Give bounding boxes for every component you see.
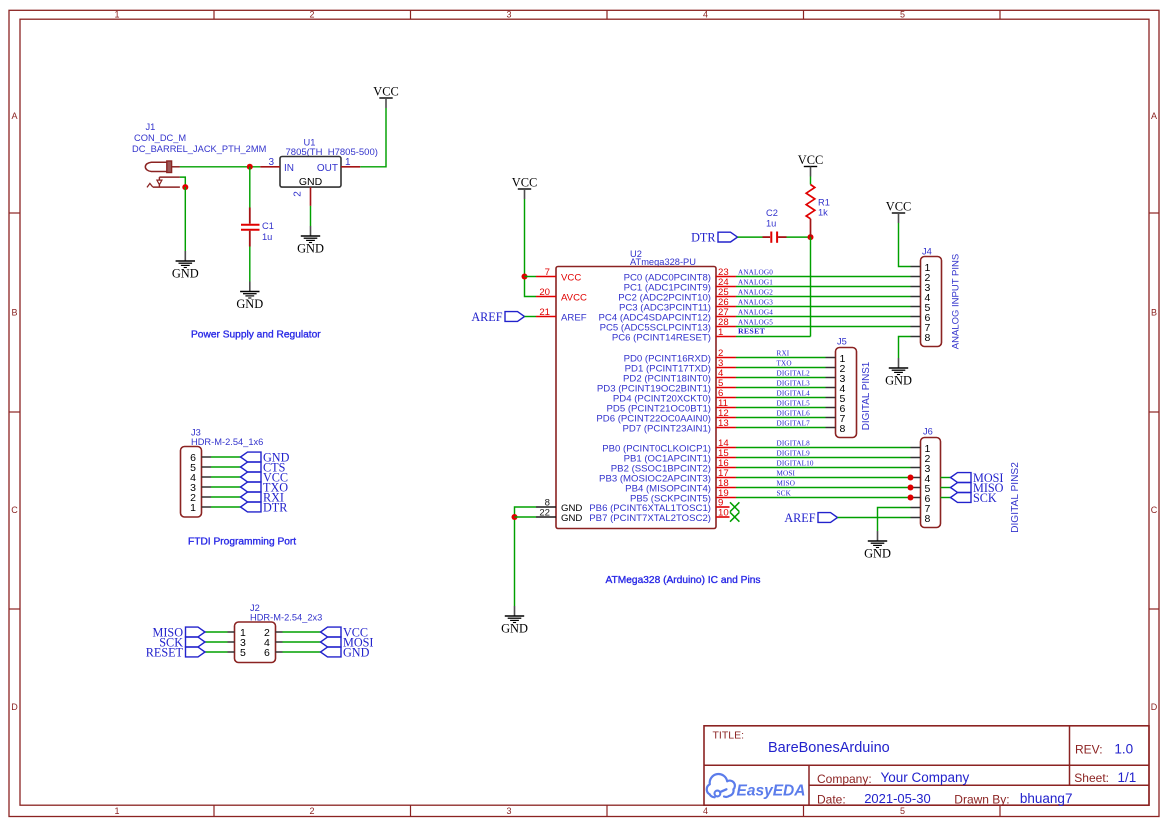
ground — [864, 531, 891, 561]
svg-text:4: 4 — [703, 9, 708, 19]
svg-text:1u: 1u — [766, 219, 776, 229]
wire — [736, 497, 911, 499]
ground — [297, 226, 324, 256]
junction — [182, 184, 188, 190]
svg-text:ANALOG1: ANALOG1 — [738, 279, 773, 287]
svg-text:10: 10 — [718, 508, 729, 519]
connector J6 — [921, 427, 941, 528]
svg-text:PC6 (PCINT14RESET): PC6 (PCINT14RESET) — [612, 332, 711, 343]
svg-text:D: D — [1151, 702, 1158, 712]
svg-text:AVCC: AVCC — [561, 292, 587, 303]
svg-text:Date:: Date: — [817, 793, 846, 807]
svg-text:GND: GND — [297, 242, 324, 256]
IC U2 ATmega328-PU — [556, 249, 716, 529]
svg-text:PB7 (PCINT7XTAL2TOSC2): PB7 (PCINT7XTAL2TOSC2) — [589, 513, 711, 524]
connector J2 — [235, 603, 323, 663]
svg-text:ANALOG3: ANALOG3 — [738, 299, 773, 307]
wire — [736, 286, 911, 288]
svg-text:D: D — [11, 702, 18, 712]
svg-text:Power Supply and Regulator: Power Supply and Regulator — [191, 330, 321, 341]
wire — [525, 199, 537, 297]
pin 4 of J4 — [911, 292, 931, 304]
wire — [249, 247, 251, 282]
svg-text:GND: GND — [236, 297, 263, 311]
svg-text:2: 2 — [309, 806, 314, 816]
pin 4 of J6 — [911, 473, 931, 485]
svg-text:DIGITAL PINS2: DIGITAL PINS2 — [1010, 462, 1021, 533]
net flag GND — [241, 450, 290, 464]
connector J5 — [836, 337, 857, 438]
wire — [736, 447, 911, 449]
svg-text:BareBonesArduino: BareBonesArduino — [768, 740, 890, 756]
wire — [736, 397, 826, 399]
pin 2 of J4 — [911, 272, 931, 284]
wire — [205, 641, 228, 643]
svg-text:1: 1 — [345, 157, 351, 168]
wire — [736, 316, 911, 318]
svg-text:1: 1 — [718, 327, 723, 338]
svg-text:21: 21 — [539, 307, 550, 318]
svg-text:2: 2 — [293, 191, 304, 197]
resistor R1 — [806, 185, 830, 238]
pin 28 of U2 (PC5) — [600, 317, 736, 333]
title block — [704, 726, 1149, 807]
svg-text:HDR-M-2.54_1x6: HDR-M-2.54_1x6 — [191, 437, 263, 447]
wire — [211, 456, 241, 458]
pin 25 of U2 (PC2) — [618, 287, 736, 303]
svg-text:DIGITAL4: DIGITAL4 — [777, 390, 811, 398]
svg-text:IN: IN — [284, 163, 294, 174]
pin 6 of U2 (PD4) — [613, 388, 736, 404]
svg-text:REV:: REV: — [1075, 742, 1103, 756]
wire — [838, 517, 911, 519]
svg-text:J6: J6 — [923, 427, 933, 437]
junction — [908, 485, 914, 491]
pin 2 of J3 — [190, 492, 211, 504]
pin 5 of J4 — [911, 302, 931, 314]
svg-text:VCC: VCC — [373, 85, 398, 99]
wire — [525, 276, 537, 278]
junction — [808, 234, 814, 240]
pin 7 of J5 — [826, 413, 846, 425]
net flag RXI — [241, 490, 285, 504]
svg-text:AREF: AREF — [784, 511, 815, 525]
pin 13 of U2 (PD7) — [623, 418, 737, 434]
wire — [283, 631, 321, 633]
svg-text:5: 5 — [240, 647, 246, 659]
svg-text:13: 13 — [718, 418, 729, 429]
wire — [736, 427, 826, 429]
wire — [736, 477, 911, 479]
power flag VCC — [798, 153, 823, 177]
pin 5 of J2 — [228, 647, 247, 659]
pin 5 of U2 (PD3) — [597, 378, 736, 394]
svg-text:U1: U1 — [304, 138, 316, 148]
svg-text:VCC: VCC — [886, 200, 911, 214]
junction — [512, 514, 518, 520]
junction — [247, 164, 253, 170]
svg-text:1k: 1k — [818, 207, 828, 217]
svg-text:1/1: 1/1 — [1118, 770, 1137, 785]
svg-text:J3: J3 — [191, 428, 201, 438]
svg-text:HDR-M-2.54_2x3: HDR-M-2.54_2x3 — [250, 613, 322, 623]
wire — [525, 316, 537, 318]
ground — [501, 606, 528, 636]
svg-text:SCK: SCK — [777, 490, 792, 498]
svg-text:VCC: VCC — [512, 176, 537, 190]
wire — [736, 326, 911, 328]
svg-text:2021-05-30: 2021-05-30 — [864, 791, 931, 806]
pin 8 of J5 — [826, 423, 846, 435]
pin 3 of J5 — [826, 373, 846, 385]
pin 12 of U2 (PD6) — [596, 408, 736, 424]
svg-text:TXO: TXO — [777, 360, 792, 368]
wire — [184, 187, 186, 251]
wire — [941, 477, 951, 479]
svg-text:4: 4 — [703, 806, 708, 816]
net flag GND — [321, 645, 370, 659]
wire — [211, 506, 241, 508]
svg-text:22: 22 — [539, 508, 550, 519]
svg-text:AREF: AREF — [561, 312, 587, 323]
pin 2 of J6 — [911, 453, 931, 465]
svg-text:1: 1 — [190, 502, 196, 514]
wire — [211, 466, 241, 468]
pin 18 of U2 (PB4) — [625, 478, 736, 494]
svg-text:VCC: VCC — [798, 153, 823, 167]
svg-text:7: 7 — [545, 267, 550, 278]
wire — [211, 496, 241, 498]
power flag VCC — [886, 200, 911, 224]
pin 6 of J4 — [911, 312, 931, 324]
svg-text:DTR: DTR — [691, 231, 716, 245]
pin 10 of U2 (PB7) — [589, 508, 729, 524]
svg-text:Company:: Company: — [817, 772, 872, 786]
svg-text:ANALOG5: ANALOG5 — [738, 319, 773, 327]
wire — [787, 236, 811, 238]
svg-text:3: 3 — [506, 9, 511, 19]
wire — [736, 306, 911, 308]
svg-text:EasyEDA: EasyEDA — [737, 782, 806, 799]
net flag AREF — [471, 310, 524, 324]
svg-text:1: 1 — [114, 806, 119, 816]
wire — [736, 457, 911, 459]
svg-text:PD7 (PCINT23AIN1): PD7 (PCINT23AIN1) — [623, 423, 712, 434]
wire — [736, 296, 911, 298]
pin 7 of J4 — [911, 322, 931, 334]
pin 11 of U2 (PD5) — [607, 398, 737, 414]
pin 4 of U2 (PD2) — [623, 368, 736, 384]
net flag VCC — [241, 470, 289, 484]
svg-text:GND: GND — [885, 374, 912, 388]
pin 4 of J5 — [826, 383, 846, 395]
wire — [180, 177, 185, 187]
pin 3 of J2 — [228, 637, 247, 649]
svg-text:RXI: RXI — [777, 350, 790, 358]
wire — [736, 357, 826, 359]
svg-text:RESET: RESET — [738, 327, 766, 336]
pin 3 of U1 — [260, 157, 280, 168]
wire — [736, 276, 911, 278]
wire — [211, 486, 241, 488]
ground — [885, 358, 912, 388]
pin 1 of J5 — [826, 353, 846, 365]
wire — [899, 337, 911, 359]
svg-text:bhuang7: bhuang7 — [1020, 791, 1073, 806]
svg-text:Sheet:: Sheet: — [1074, 771, 1109, 785]
pin 2 of J5 — [826, 363, 846, 375]
wire — [283, 641, 321, 643]
wire — [211, 476, 241, 478]
net flag AREF — [784, 511, 837, 525]
pin 8 of U2 (GND) — [536, 498, 582, 514]
svg-text:Your Company: Your Company — [881, 770, 970, 785]
pin 8 of J6 — [911, 513, 931, 525]
capacitor C1 — [241, 208, 274, 247]
svg-text:GND: GND — [299, 176, 323, 188]
svg-text:5: 5 — [900, 9, 905, 19]
pin 24 of U2 (PC1) — [624, 277, 736, 293]
pin 5 of J6 — [911, 483, 931, 495]
wire — [736, 487, 911, 489]
wire — [878, 508, 911, 532]
svg-text:MISO: MISO — [777, 480, 796, 488]
wire — [736, 467, 911, 469]
wire — [810, 237, 812, 336]
pin 9 of U2 (PB6) — [589, 498, 729, 514]
svg-text:CON_DC_M: CON_DC_M — [134, 133, 186, 143]
svg-text:6: 6 — [264, 647, 270, 659]
wire — [736, 336, 811, 338]
svg-text:AREF: AREF — [471, 310, 502, 324]
pin 4 of J3 — [190, 472, 211, 484]
svg-text:C2: C2 — [766, 208, 778, 218]
svg-text:DIGITAL5: DIGITAL5 — [777, 400, 811, 408]
svg-text:ANALOG INPUT PINS: ANALOG INPUT PINS — [951, 254, 962, 349]
svg-text:J5: J5 — [837, 337, 847, 347]
no-connect flag — [730, 512, 739, 521]
pin 2 of U1 — [293, 187, 311, 206]
connector J3 — [181, 428, 264, 518]
svg-text:R1: R1 — [818, 197, 830, 207]
svg-text:C1: C1 — [262, 221, 274, 231]
pin 14 of U2 (PB0) — [602, 438, 736, 454]
svg-text:DIGITAL3: DIGITAL3 — [777, 380, 811, 388]
pin 1 of J2 — [228, 627, 247, 639]
svg-text:GND: GND — [864, 547, 891, 561]
svg-text:DIGITAL9: DIGITAL9 — [777, 450, 811, 458]
wire — [515, 516, 537, 518]
pin 7 of U2 (VCC) — [536, 267, 581, 283]
pin 6 of J3 — [190, 452, 211, 464]
pin 3 of J6 — [911, 463, 931, 475]
svg-text:A: A — [11, 111, 17, 121]
svg-text:20: 20 — [539, 287, 550, 298]
pin 21 of U2 (AREF) — [536, 307, 587, 323]
pin 3 of J4 — [911, 282, 931, 294]
net flag VCC — [321, 625, 369, 639]
svg-text:C: C — [1151, 505, 1158, 515]
wire — [736, 377, 826, 379]
svg-text:J1: J1 — [146, 122, 156, 132]
no-connect flag — [730, 502, 739, 511]
pin 5 of J5 — [826, 393, 846, 405]
svg-text:DIGITAL2: DIGITAL2 — [777, 370, 811, 378]
svg-text:OUT: OUT — [317, 163, 338, 174]
power flag VCC — [512, 176, 537, 200]
svg-text:1: 1 — [114, 9, 119, 19]
wire — [515, 507, 537, 606]
pin 6 of J5 — [826, 403, 846, 415]
svg-text:DC_BARREL_JACK_PTH_2MM: DC_BARREL_JACK_PTH_2MM — [132, 144, 266, 154]
svg-text:ATMega328 (Arduino) IC and Pin: ATMega328 (Arduino) IC and Pins — [606, 575, 761, 586]
svg-text:GND: GND — [561, 513, 582, 524]
pin 3 of U2 (PD1) — [625, 358, 736, 374]
svg-text:1.0: 1.0 — [1114, 741, 1133, 756]
wire — [736, 367, 826, 369]
net flag SCK — [159, 635, 205, 649]
svg-text:8: 8 — [925, 332, 931, 344]
svg-text:3: 3 — [268, 157, 274, 168]
svg-text:VCC: VCC — [561, 272, 581, 283]
junction — [908, 495, 914, 501]
wire — [283, 651, 321, 653]
pin 23 of U2 (PC0) — [624, 267, 736, 283]
svg-text:ANALOG2: ANALOG2 — [738, 289, 773, 297]
net flag CTS — [241, 460, 286, 474]
pin 1 of J4 — [911, 262, 931, 274]
pin 5 of J3 — [190, 462, 211, 474]
pin 26 of U2 (PC3) — [619, 297, 736, 313]
pin 4 of J2 — [264, 637, 283, 649]
svg-text:J4: J4 — [922, 247, 932, 257]
svg-text:J2: J2 — [250, 603, 260, 613]
pin 17 of U2 (PB3) — [599, 468, 736, 484]
svg-text:8: 8 — [925, 513, 931, 525]
pin 22 of U2 (GND) — [536, 508, 582, 524]
svg-text:A: A — [1151, 111, 1157, 121]
pin 1 of U1 — [341, 157, 360, 168]
pin 3 of J3 — [190, 482, 211, 494]
wire — [180, 166, 260, 168]
svg-text:DIGITAL6: DIGITAL6 — [777, 410, 811, 418]
ground — [172, 251, 199, 281]
svg-text:3: 3 — [506, 806, 511, 816]
svg-text:DTR: DTR — [263, 500, 288, 514]
pin 6 of J2 — [264, 647, 283, 659]
svg-text:2: 2 — [309, 9, 314, 19]
svg-text:ATmega328-PU: ATmega328-PU — [630, 257, 696, 267]
wire — [205, 631, 228, 633]
wire — [360, 108, 386, 167]
junction — [908, 475, 914, 481]
pin 2 of J2 — [264, 627, 283, 639]
pin 1 of J6 — [911, 443, 931, 455]
svg-text:5: 5 — [900, 806, 905, 816]
pin 19 of U2 (PB5) — [630, 488, 736, 504]
EasyEDA logo — [707, 774, 806, 799]
regulator U1 — [280, 138, 378, 189]
wire — [736, 407, 826, 409]
net flag TXO — [241, 480, 289, 494]
wire — [736, 417, 826, 419]
pin 20 of U2 (AVCC) — [536, 287, 587, 303]
net flag MOSI — [951, 471, 1004, 485]
pin 6 of J6 — [911, 493, 931, 505]
svg-text:RESET: RESET — [146, 645, 184, 659]
wire — [738, 236, 763, 238]
svg-text:DIGITAL10: DIGITAL10 — [777, 460, 814, 468]
pin 16 of U2 (PB2) — [611, 458, 736, 474]
svg-text:GND: GND — [501, 622, 528, 636]
svg-text:B: B — [1151, 308, 1157, 318]
net flag DTR — [241, 500, 289, 514]
pin 2 of U2 (PD0) — [624, 348, 736, 364]
pin 1 of U2 (PC6) — [612, 327, 736, 343]
pin 27 of U2 (PC4) — [599, 307, 737, 323]
svg-text:SCK: SCK — [973, 491, 997, 505]
svg-text:DIGITAL8: DIGITAL8 — [777, 440, 811, 448]
net flag MISO — [951, 481, 1004, 495]
pin 1 of J3 — [190, 502, 211, 514]
pin 7 of J6 — [911, 503, 931, 515]
junction — [522, 274, 528, 280]
svg-text:TITLE:: TITLE: — [713, 729, 745, 741]
connector J4 — [921, 247, 942, 347]
wire — [941, 497, 951, 499]
wire — [941, 487, 951, 489]
wire — [899, 223, 911, 267]
wire — [205, 651, 228, 653]
pin 8 of J4 — [911, 332, 931, 344]
ground — [236, 282, 263, 312]
svg-text:ANALOG0: ANALOG0 — [738, 269, 773, 277]
svg-text:Drawn By:: Drawn By: — [954, 793, 1009, 807]
connector J1 (DC barrel jack) — [132, 122, 266, 187]
svg-text:ANALOG4: ANALOG4 — [738, 309, 773, 317]
pin 15 of U2 (PB1) — [624, 448, 736, 464]
svg-text:DIGITAL7: DIGITAL7 — [777, 420, 811, 428]
svg-text:FTDI Programming Port: FTDI Programming Port — [188, 537, 296, 548]
wire — [736, 387, 826, 389]
net flag SCK — [951, 491, 997, 505]
power flag VCC — [373, 85, 398, 109]
svg-text:GND: GND — [343, 645, 370, 659]
svg-text:DIGITAL PINS1: DIGITAL PINS1 — [861, 361, 872, 430]
svg-text:B: B — [11, 308, 17, 318]
svg-text:MOSI: MOSI — [777, 470, 796, 478]
net flag DTR — [691, 231, 737, 245]
wire — [810, 177, 812, 185]
svg-text:1u: 1u — [262, 232, 272, 242]
wire — [310, 206, 312, 226]
svg-text:8: 8 — [840, 423, 846, 435]
wire — [249, 167, 251, 208]
net flag MISO — [153, 625, 205, 639]
net flag RESET — [146, 645, 205, 659]
net flag MOSI — [321, 635, 374, 649]
svg-text:GND: GND — [172, 267, 199, 281]
svg-text:C: C — [11, 505, 18, 515]
capacitor C2 — [763, 208, 787, 243]
